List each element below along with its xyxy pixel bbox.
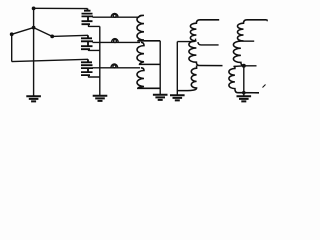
ground G4 [170,95,185,100]
wire top feeder to winding W1 [34,7,88,9]
coil T2 coupling [177,66,196,91]
ground G1 [33,95,35,96]
node D right dot [50,35,54,39]
wire W2 bottom to bus [89,49,100,50]
wire delta right diagonal [34,28,53,37]
coil T1C [137,68,160,89]
wire bus vertical to ground G2 [99,26,101,95]
wire left vertical from node C [11,34,13,61]
node F junction dot [242,91,246,95]
coil T2 upper [190,20,219,41]
coil T3 coupling [229,66,259,93]
winding W2 comb [52,35,88,36]
wire T1 right vertical to ground G3 [159,41,161,95]
wire T2 ground vertical [176,42,178,96]
speck [263,85,266,88]
winding W1 comb [87,9,89,11]
wire W3 bottom to bus [89,75,100,77]
wire delta left diagonal [12,28,34,35]
coil T1B [137,42,160,64]
ground G3 [153,95,168,100]
wire bottom feeder to winding W3 [12,59,88,61]
node B delta apex dot [32,26,36,30]
ground G5 [237,96,252,101]
wire center vertical bus to ground [33,8,35,96]
wire T2 middle lead [198,42,219,45]
coil T2 lower [189,41,223,66]
node A top junction dot [32,6,36,10]
wire T2 link from ground bus [177,39,195,42]
wire tap row3 [93,67,141,69]
coil T3 lower [233,41,244,65]
wire W1 bottom to bus [89,24,100,26]
winding W3 comb [87,59,89,62]
wire T3 middle lead [241,40,254,42]
ground G2 [93,96,108,101]
wire T3 vertical to ground G5 [243,66,245,97]
loop L2 [112,39,119,43]
loop L1 [111,13,118,17]
wire tap row1 [93,16,140,18]
coil T3 upper [237,20,266,41]
loop L3 [111,64,118,68]
node E junction dot [242,64,246,68]
coil T1A [137,15,160,40]
wire tap row2 [93,41,141,43]
wire stage link right piece [233,65,256,68]
node C left dot [10,32,14,36]
wire T3 top lead end hook [266,20,268,21]
